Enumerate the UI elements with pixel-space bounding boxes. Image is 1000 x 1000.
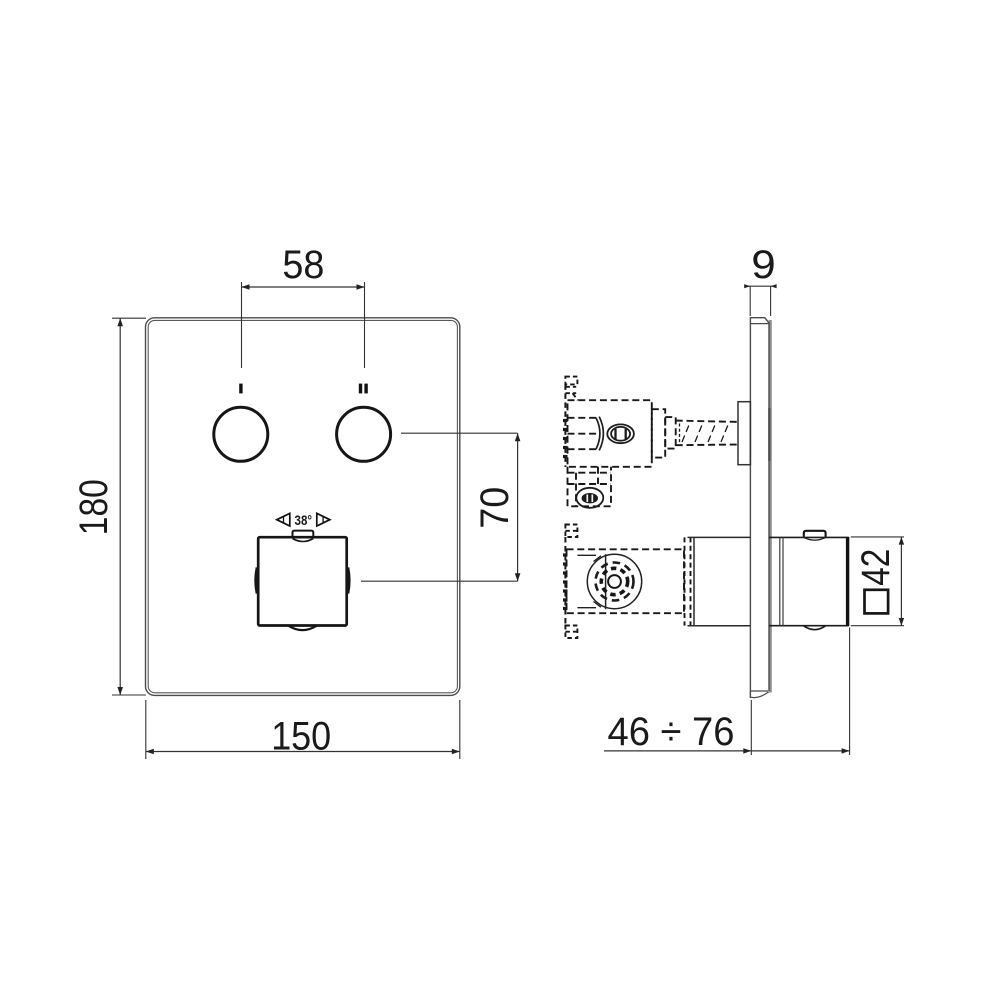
svg-text:180: 180	[72, 479, 116, 535]
big solid circle	[587, 554, 641, 608]
square knob top tab	[293, 531, 314, 537]
dim 70 arrow top	[515, 433, 521, 441]
dim 46-76 ext left	[750, 700, 752, 755]
stem bottom	[676, 444, 738, 447]
dim 150 arrow left	[146, 749, 154, 755]
plate side outline	[750, 318, 769, 698]
square knob bottom arc	[289, 626, 317, 630]
collar dashed lines	[684, 537, 686, 625]
escutcheon left edge	[693, 537, 695, 625]
dim 70 line	[517, 433, 519, 581]
38deg right arrow	[317, 513, 330, 526]
dashed ring r19	[596, 563, 634, 601]
knob bottom line	[769, 625, 849, 627]
plate inner outline	[148, 320, 457, 692]
dim 70 arrow bottom	[515, 573, 521, 581]
upper oval screw outer	[607, 424, 634, 443]
dim sq42 arrow top	[899, 537, 904, 545]
dim 58 line	[242, 286, 365, 288]
escutcheon solid top line	[688, 536, 751, 538]
dim 9 ext left	[749, 286, 751, 316]
lower solid sub-rect	[577, 554, 596, 556]
square knob body	[258, 537, 347, 625]
svg-text:46 ÷ 76: 46 ÷ 76	[608, 710, 735, 754]
dim 180 line	[119, 318, 121, 695]
upper cartridge solid arcs	[596, 418, 600, 449]
plate side gray shade band	[769, 320, 772, 693]
svg-text:58: 58	[282, 243, 324, 287]
upper right step 1	[652, 409, 665, 457]
plate side bottom lines	[750, 690, 768, 692]
knob bottom arc	[803, 626, 825, 630]
dim 180 extension bottom	[112, 694, 146, 696]
square knob tab arc	[293, 539, 314, 542]
svg-text:9: 9	[751, 243, 776, 287]
upper knob side profile on plate edge	[768, 408, 770, 461]
dim 70 leader top	[401, 432, 518, 434]
dim 46-76 arrow left	[743, 748, 751, 753]
knob circle II	[337, 407, 391, 461]
upper cartridge dashed	[568, 417, 597, 419]
square knob right ear	[348, 568, 349, 594]
knob right thick edge	[846, 537, 849, 626]
upper assembly wall flange solid	[738, 402, 750, 465]
plate side top band line	[750, 323, 769, 325]
svg-text:38°: 38°	[295, 512, 313, 528]
square knob left ear	[256, 568, 257, 594]
knob top tab	[804, 531, 826, 537]
knob top line	[769, 536, 849, 538]
dim 46-76 ext right	[849, 628, 851, 756]
dim sq42 ext top	[851, 536, 904, 538]
dim 58 arrow left	[242, 284, 250, 290]
stem hatch	[682, 425, 689, 442]
upper lower protrusion	[568, 467, 612, 507]
lower main dashed rect	[567, 549, 685, 613]
38deg left arrow	[277, 513, 290, 526]
label I	[239, 384, 242, 394]
dim 58 arrow right	[357, 284, 365, 290]
knob circle I	[214, 407, 268, 461]
dim sq42 line	[900, 537, 902, 626]
upper main body dashed rect	[568, 400, 652, 467]
plate outer outline	[146, 318, 460, 696]
dim 150 arrow right	[452, 749, 460, 755]
dim 180 arrow top	[117, 318, 123, 326]
escutcheon solid bottom line	[688, 625, 751, 627]
dim 9 line	[746, 285, 775, 287]
bold dashed ring r13	[601, 568, 627, 594]
stem top	[676, 421, 738, 422]
dim 9 arrow right	[771, 284, 777, 288]
dim 150 line	[146, 751, 460, 753]
lower wall bracket	[565, 525, 577, 538]
dim 70 leader bottom	[361, 580, 518, 582]
dim 9 ext right	[770, 286, 772, 316]
chord line	[605, 554, 607, 609]
dim 150 extension left	[145, 700, 147, 759]
upper right step 2	[665, 417, 676, 449]
dim sq42 ext bottom	[851, 625, 904, 627]
svg-text:42: 42	[854, 549, 898, 586]
dim 58 ext line right	[364, 282, 366, 368]
upper oval screw inner	[611, 427, 630, 441]
dim 180 arrow bottom	[117, 687, 123, 695]
dim 180 extension top	[112, 317, 146, 319]
dim 150 extension right	[459, 700, 461, 759]
upper bracket teeth	[563, 421, 568, 457]
dim 46-76 arrow right	[842, 748, 850, 753]
cartridge corner slashes	[594, 556, 602, 562]
small solid circle	[608, 575, 621, 588]
svg-text:70: 70	[473, 487, 517, 529]
upper oval screw bars	[614, 429, 616, 439]
dim 58 ext line left	[241, 282, 243, 368]
lower screw of upper assembly: outer ellipse	[576, 488, 603, 508]
dim 46-76 line	[604, 750, 850, 752]
knob top tab arc	[804, 537, 826, 540]
upper wall bracket	[565, 377, 577, 385]
svg-text:150: 150	[271, 715, 331, 759]
label II	[359, 384, 362, 394]
dim sq42 arrow bottom	[899, 618, 904, 626]
dim 9 arrow left	[744, 284, 750, 288]
dim sq42 square symbol	[865, 590, 889, 614]
knob left double lines	[779, 537, 781, 625]
lower screw inner dark oval	[582, 493, 598, 503]
